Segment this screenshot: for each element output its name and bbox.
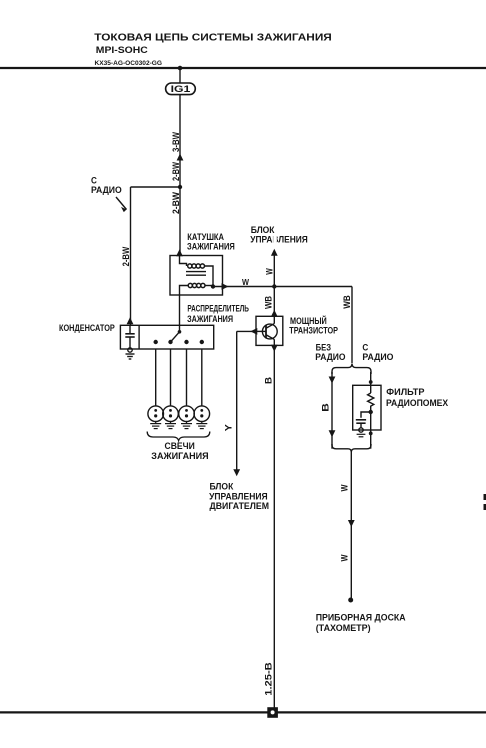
svg-text:2-BW: 2-BW xyxy=(121,246,131,266)
svg-text:WB: WB xyxy=(263,296,273,309)
svg-text:W: W xyxy=(339,484,349,491)
svg-text:KX35-AG-OC0302-GG: KX35-AG-OC0302-GG xyxy=(95,60,163,67)
svg-text:ПРИБОРНАЯ ДОСКА: ПРИБОРНАЯ ДОСКА xyxy=(316,613,406,624)
svg-text:ТРАНЗИСТОР: ТРАНЗИСТОР xyxy=(289,326,338,337)
svg-text:(ТАХОМЕТР): (ТАХОМЕТР) xyxy=(316,623,371,634)
svg-text:2-BW: 2-BW xyxy=(171,162,181,181)
svg-text:ДВИГАТЕЛЕМ: ДВИГАТЕЛЕМ xyxy=(210,501,270,512)
svg-text:3-BW: 3-BW xyxy=(171,132,181,152)
svg-text:РАДИО: РАДИО xyxy=(91,185,122,196)
svg-text:УПРАВЛЕНИЯ: УПРАВЛЕНИЯ xyxy=(250,234,308,245)
svg-text:ЗАЖИГАНИЯ: ЗАЖИГАНИЯ xyxy=(187,242,235,253)
svg-text:РАДИО: РАДИО xyxy=(315,352,345,363)
svg-text:ЗАЖИГАНИЯ: ЗАЖИГАНИЯ xyxy=(151,451,208,462)
svg-text:W: W xyxy=(339,554,349,561)
svg-text:ФИЛЬТР: ФИЛЬТР xyxy=(386,387,425,398)
svg-text:2-BW: 2-BW xyxy=(171,192,181,214)
svg-text:РАДИОПОМЕХ: РАДИОПОМЕХ xyxy=(386,398,449,409)
svg-text:W: W xyxy=(242,277,250,287)
svg-text:РАДИО: РАДИО xyxy=(362,352,393,363)
svg-text:MPI-SOHC: MPI-SOHC xyxy=(96,45,149,55)
svg-text:1.25-B: 1.25-B xyxy=(263,662,273,696)
svg-text:ЗАЖИГАНИЯ: ЗАЖИГАНИЯ xyxy=(187,314,233,325)
svg-text:Y: Y xyxy=(224,424,234,431)
svg-text:W: W xyxy=(264,268,274,275)
svg-text:КОНДЕНСАТОР: КОНДЕНСАТОР xyxy=(59,323,115,334)
svg-text:IG1: IG1 xyxy=(171,84,191,94)
svg-text:ТОКОВАЯ ЦЕПЬ СИСТЕМЫ ЗАЖИГАНИЯ: ТОКОВАЯ ЦЕПЬ СИСТЕМЫ ЗАЖИГАНИЯ xyxy=(94,33,331,44)
svg-text:B: B xyxy=(263,376,273,384)
svg-text:B: B xyxy=(320,403,330,412)
svg-text:WB: WB xyxy=(342,295,352,309)
